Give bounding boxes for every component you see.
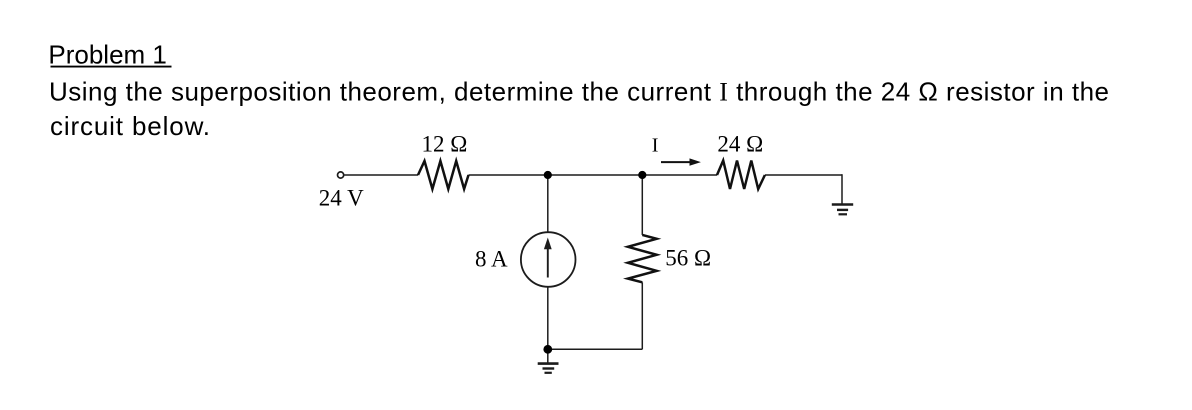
svg-text:12 Ω: 12 Ω — [422, 132, 468, 157]
svg-text:I: I — [652, 134, 659, 156]
svg-text:Using the superposition theore: Using the superposition theorem, determi… — [49, 76, 1109, 106]
svg-text:8 A: 8 A — [475, 247, 508, 272]
svg-text:circuit below.: circuit below. — [50, 111, 210, 141]
svg-text:56 Ω: 56 Ω — [665, 245, 711, 270]
svg-text:24 Ω: 24 Ω — [717, 132, 763, 157]
svg-text:24 V: 24 V — [319, 186, 364, 211]
svg-text:Problem 1: Problem 1 — [48, 39, 166, 69]
